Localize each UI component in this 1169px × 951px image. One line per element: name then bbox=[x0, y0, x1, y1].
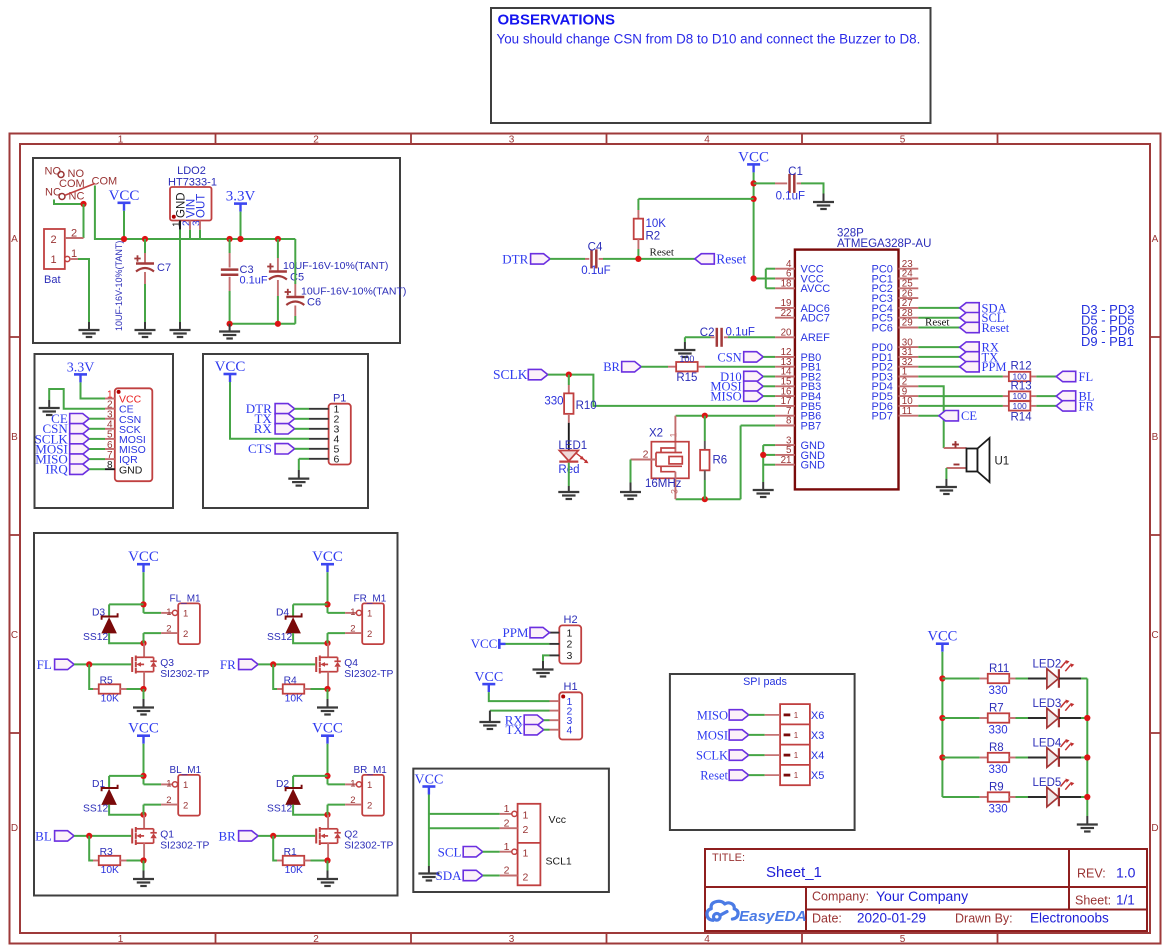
svg-text:1: 1 bbox=[350, 607, 355, 618]
svg-text:1: 1 bbox=[523, 847, 529, 859]
svg-text:R2: R2 bbox=[646, 231, 661, 243]
svg-text:H1: H1 bbox=[564, 681, 578, 693]
svg-text:0.1uF: 0.1uF bbox=[240, 275, 268, 287]
svg-text:1: 1 bbox=[183, 609, 188, 620]
svg-text:10K: 10K bbox=[101, 694, 119, 705]
svg-text:Q1: Q1 bbox=[160, 830, 174, 841]
svg-text:330: 330 bbox=[989, 724, 1008, 736]
svg-text:SCLK: SCLK bbox=[696, 749, 728, 763]
svg-text:1: 1 bbox=[118, 135, 124, 146]
svg-text:FL_M1: FL_M1 bbox=[170, 594, 202, 605]
svg-text:R15: R15 bbox=[676, 372, 697, 384]
svg-text:BR: BR bbox=[218, 828, 236, 843]
svg-text:330: 330 bbox=[989, 803, 1008, 815]
svg-text:D2: D2 bbox=[276, 779, 289, 790]
svg-text:2: 2 bbox=[367, 629, 372, 640]
svg-text:SS12: SS12 bbox=[83, 632, 108, 643]
svg-text:29: 29 bbox=[902, 318, 913, 329]
svg-text:330: 330 bbox=[544, 396, 563, 408]
svg-text:MOSI: MOSI bbox=[697, 728, 728, 742]
svg-text:C: C bbox=[1151, 630, 1158, 641]
svg-text:SCL: SCL bbox=[438, 844, 462, 859]
svg-text:10K: 10K bbox=[285, 694, 303, 705]
svg-text:VCC: VCC bbox=[128, 549, 159, 565]
svg-text:8: 8 bbox=[107, 460, 113, 471]
svg-text:1.0: 1.0 bbox=[1116, 865, 1136, 881]
svg-text:ADC7: ADC7 bbox=[801, 313, 830, 325]
svg-text:X6: X6 bbox=[811, 710, 824, 722]
svg-text:Vcc: Vcc bbox=[549, 814, 567, 826]
svg-text:D3: D3 bbox=[92, 608, 105, 619]
svg-text:D: D bbox=[11, 823, 18, 834]
svg-text:B: B bbox=[1152, 432, 1159, 443]
svg-text:100: 100 bbox=[679, 354, 694, 364]
svg-text:2: 2 bbox=[71, 228, 77, 240]
svg-text:R13: R13 bbox=[1011, 380, 1032, 392]
svg-text:SI2302-TP: SI2302-TP bbox=[344, 669, 393, 680]
svg-text:C7: C7 bbox=[157, 262, 171, 274]
svg-text:D4: D4 bbox=[276, 608, 289, 619]
svg-text:3: 3 bbox=[509, 135, 515, 146]
svg-text:0.1uF: 0.1uF bbox=[776, 191, 805, 203]
svg-text:X5: X5 bbox=[811, 770, 824, 782]
svg-text:EasyEDA: EasyEDA bbox=[739, 908, 807, 925]
svg-text:R8: R8 bbox=[989, 742, 1004, 754]
svg-text:LED1: LED1 bbox=[558, 440, 587, 452]
svg-text:1: 1 bbox=[504, 803, 510, 815]
svg-text:2: 2 bbox=[350, 795, 355, 806]
svg-text:1: 1 bbox=[794, 771, 799, 780]
svg-text:CE: CE bbox=[961, 409, 977, 423]
svg-text:2: 2 bbox=[183, 629, 188, 640]
svg-text:100: 100 bbox=[1013, 401, 1027, 411]
svg-text:TX: TX bbox=[505, 722, 523, 737]
svg-text:PPM: PPM bbox=[502, 625, 528, 640]
svg-text:D1: D1 bbox=[92, 779, 105, 790]
svg-text:2: 2 bbox=[313, 934, 319, 945]
svg-text:SS12: SS12 bbox=[267, 804, 292, 815]
svg-text:C2: C2 bbox=[700, 327, 715, 339]
svg-text:R14: R14 bbox=[1011, 411, 1033, 423]
svg-text:Drawn By:: Drawn By: bbox=[955, 912, 1013, 926]
svg-text:C5: C5 bbox=[290, 272, 304, 284]
svg-text:1: 1 bbox=[794, 711, 799, 720]
svg-text:VCC: VCC bbox=[312, 721, 343, 737]
svg-text:OBSERVATIONS: OBSERVATIONS bbox=[498, 12, 616, 29]
svg-text:1: 1 bbox=[567, 627, 573, 639]
svg-text:VCC: VCC bbox=[471, 636, 498, 651]
svg-text:X2: X2 bbox=[649, 428, 663, 440]
svg-text:R7: R7 bbox=[989, 702, 1004, 714]
svg-text:10K: 10K bbox=[285, 865, 303, 876]
svg-text:FR: FR bbox=[1079, 399, 1095, 413]
svg-text:1: 1 bbox=[669, 432, 679, 437]
svg-text:U1: U1 bbox=[995, 456, 1010, 468]
svg-text:1: 1 bbox=[118, 934, 124, 945]
svg-text:1: 1 bbox=[794, 731, 799, 740]
svg-text:RX: RX bbox=[254, 421, 273, 436]
svg-text:VCC: VCC bbox=[109, 188, 140, 204]
svg-text:Sheet_1: Sheet_1 bbox=[766, 864, 822, 881]
svg-text:11: 11 bbox=[902, 406, 912, 417]
svg-text:1: 1 bbox=[71, 248, 77, 260]
svg-text:SCLK: SCLK bbox=[493, 367, 528, 382]
svg-text:4: 4 bbox=[704, 135, 710, 146]
svg-text:2: 2 bbox=[567, 639, 573, 651]
svg-text:1: 1 bbox=[166, 607, 171, 618]
svg-text:1: 1 bbox=[350, 779, 355, 790]
svg-text:Reset: Reset bbox=[925, 316, 949, 328]
svg-text:PB7: PB7 bbox=[801, 420, 822, 432]
svg-text:FL: FL bbox=[1079, 370, 1094, 384]
svg-text:D: D bbox=[1151, 823, 1158, 834]
svg-text:0.1uF: 0.1uF bbox=[726, 327, 755, 339]
svg-text:TITLE:: TITLE: bbox=[712, 852, 745, 864]
svg-text:VCC: VCC bbox=[474, 670, 503, 685]
svg-text:2: 2 bbox=[523, 824, 529, 836]
svg-text:C: C bbox=[11, 630, 18, 641]
svg-text:C6: C6 bbox=[307, 297, 321, 309]
svg-text:Company:: Company: bbox=[812, 890, 869, 904]
svg-text:VCC: VCC bbox=[415, 773, 444, 788]
svg-text:2: 2 bbox=[166, 795, 171, 806]
svg-text:IRQ: IRQ bbox=[45, 462, 68, 477]
svg-text:MISO: MISO bbox=[697, 708, 728, 722]
svg-text:2: 2 bbox=[367, 801, 372, 812]
svg-text:SS12: SS12 bbox=[83, 804, 108, 815]
svg-text:1: 1 bbox=[367, 609, 372, 620]
svg-text:BR: BR bbox=[603, 360, 620, 374]
svg-text:B: B bbox=[11, 432, 18, 443]
svg-text:3: 3 bbox=[509, 934, 515, 945]
svg-text:R4: R4 bbox=[284, 676, 297, 687]
svg-text:1: 1 bbox=[794, 751, 799, 760]
svg-text:10K: 10K bbox=[101, 865, 119, 876]
svg-text:A: A bbox=[11, 234, 18, 245]
svg-text:10K: 10K bbox=[646, 218, 667, 230]
svg-text:Reset: Reset bbox=[700, 769, 728, 783]
svg-text:D9 - PB1: D9 - PB1 bbox=[1081, 334, 1134, 349]
svg-text:100: 100 bbox=[1013, 391, 1027, 401]
svg-text:2: 2 bbox=[643, 448, 649, 460]
svg-text:Electronoobs: Electronoobs bbox=[1030, 911, 1109, 926]
svg-text:2: 2 bbox=[166, 624, 171, 635]
svg-text:X4: X4 bbox=[811, 750, 824, 762]
svg-text:AREF: AREF bbox=[801, 332, 831, 344]
svg-text:R3: R3 bbox=[100, 847, 113, 858]
svg-text:2: 2 bbox=[523, 871, 529, 883]
svg-text:16MHz: 16MHz bbox=[645, 478, 682, 490]
svg-text:2: 2 bbox=[50, 234, 56, 246]
svg-text:R6: R6 bbox=[713, 455, 728, 467]
svg-text:3.3V: 3.3V bbox=[226, 189, 256, 205]
svg-text:CSN: CSN bbox=[717, 350, 741, 364]
svg-text:6: 6 bbox=[334, 454, 340, 466]
svg-text:8: 8 bbox=[786, 416, 792, 427]
svg-text:1: 1 bbox=[50, 254, 56, 266]
svg-text:PD7: PD7 bbox=[871, 411, 892, 423]
svg-text:BL_M1: BL_M1 bbox=[170, 765, 202, 776]
svg-text:R12: R12 bbox=[1011, 361, 1032, 373]
svg-text:VCC: VCC bbox=[927, 629, 957, 645]
svg-text:H2: H2 bbox=[564, 614, 578, 626]
svg-text:VCC: VCC bbox=[312, 549, 343, 565]
svg-text:1: 1 bbox=[504, 841, 510, 853]
svg-text:SI2302-TP: SI2302-TP bbox=[160, 669, 209, 680]
svg-text:PPM: PPM bbox=[982, 360, 1007, 374]
svg-text:1/1: 1/1 bbox=[1116, 893, 1135, 908]
svg-text:22: 22 bbox=[781, 308, 792, 319]
svg-text:1: 1 bbox=[166, 779, 171, 790]
svg-text:BR_M1: BR_M1 bbox=[354, 765, 388, 776]
svg-text:1: 1 bbox=[523, 810, 529, 822]
svg-text:18: 18 bbox=[781, 279, 792, 290]
svg-text:ATMEGA328P-AU: ATMEGA328P-AU bbox=[837, 238, 931, 250]
svg-text:5: 5 bbox=[900, 934, 906, 945]
svg-text:0.1uF: 0.1uF bbox=[581, 265, 610, 277]
svg-text:AVCC: AVCC bbox=[801, 283, 831, 295]
svg-text:GND: GND bbox=[119, 464, 143, 476]
svg-text:2: 2 bbox=[350, 624, 355, 635]
svg-text:Sheet:: Sheet: bbox=[1075, 894, 1111, 908]
svg-text:SDA: SDA bbox=[435, 868, 462, 883]
svg-text:Reset: Reset bbox=[982, 321, 1010, 335]
svg-text:3.3V: 3.3V bbox=[67, 360, 95, 375]
svg-text:1: 1 bbox=[367, 780, 372, 791]
svg-text:2: 2 bbox=[313, 135, 319, 146]
svg-text:CTS: CTS bbox=[248, 441, 272, 456]
svg-text:Q2: Q2 bbox=[344, 830, 358, 841]
svg-text:SI2302-TP: SI2302-TP bbox=[344, 840, 393, 851]
svg-text:You should change CSN from D8: You should change CSN from D8 to D10 and… bbox=[497, 32, 921, 47]
svg-text:SCL1: SCL1 bbox=[546, 856, 572, 868]
svg-text:2: 2 bbox=[504, 865, 510, 877]
svg-text:10UF-16V-10%(TANT): 10UF-16V-10%(TANT) bbox=[114, 241, 124, 331]
svg-text:Your Company: Your Company bbox=[876, 888, 968, 904]
svg-text:FL: FL bbox=[37, 657, 52, 672]
svg-text:OUT: OUT bbox=[196, 194, 208, 218]
svg-text:1: 1 bbox=[183, 780, 188, 791]
svg-text:VCC: VCC bbox=[738, 149, 769, 165]
svg-text:10UF-16V-10%(TANT): 10UF-16V-10%(TANT) bbox=[283, 260, 388, 272]
svg-text:Q4: Q4 bbox=[344, 658, 358, 669]
svg-text:PC6: PC6 bbox=[871, 322, 892, 334]
svg-text:Q3: Q3 bbox=[160, 658, 174, 669]
svg-text:4: 4 bbox=[567, 725, 573, 737]
svg-text:R9: R9 bbox=[989, 781, 1004, 793]
svg-text:Reset: Reset bbox=[650, 247, 674, 259]
svg-text:FR_M1: FR_M1 bbox=[354, 594, 387, 605]
svg-text:DTR: DTR bbox=[502, 251, 528, 266]
svg-text:2: 2 bbox=[504, 817, 510, 829]
svg-text:21: 21 bbox=[781, 455, 792, 466]
svg-text:3: 3 bbox=[567, 650, 573, 662]
svg-text:Reset: Reset bbox=[716, 252, 746, 267]
svg-text:LED2: LED2 bbox=[1033, 658, 1062, 670]
svg-text:SI2302-TP: SI2302-TP bbox=[160, 840, 209, 851]
svg-text:SS12: SS12 bbox=[267, 632, 292, 643]
svg-text:R1: R1 bbox=[284, 847, 297, 858]
svg-text:5: 5 bbox=[900, 135, 906, 146]
svg-text:REV:: REV: bbox=[1077, 867, 1106, 881]
svg-text:20: 20 bbox=[781, 328, 792, 339]
svg-text:330: 330 bbox=[989, 685, 1008, 697]
svg-text:SPI pads: SPI pads bbox=[743, 676, 787, 688]
svg-text:Date:: Date: bbox=[812, 912, 842, 926]
svg-text:BL: BL bbox=[35, 828, 52, 843]
svg-text:Bat: Bat bbox=[44, 274, 61, 286]
svg-text:MISO: MISO bbox=[710, 390, 741, 404]
svg-text:A: A bbox=[1152, 234, 1159, 245]
svg-text:VCC: VCC bbox=[128, 721, 159, 737]
svg-text:C1: C1 bbox=[788, 166, 803, 178]
svg-text:C4: C4 bbox=[588, 242, 603, 254]
svg-text:X3: X3 bbox=[811, 730, 824, 742]
svg-text:LDO2: LDO2 bbox=[177, 165, 206, 177]
svg-text:2: 2 bbox=[183, 801, 188, 812]
svg-text:VCC: VCC bbox=[215, 359, 246, 375]
svg-text:LED3: LED3 bbox=[1033, 698, 1062, 710]
svg-text:R5: R5 bbox=[100, 676, 113, 687]
svg-text:R11: R11 bbox=[989, 663, 1009, 675]
svg-text:GND: GND bbox=[801, 460, 826, 472]
svg-text:R10: R10 bbox=[576, 400, 597, 412]
svg-text:330: 330 bbox=[989, 764, 1008, 776]
svg-text:LED5: LED5 bbox=[1033, 777, 1062, 789]
svg-text:FR: FR bbox=[220, 657, 236, 672]
svg-text:LED4: LED4 bbox=[1033, 737, 1062, 749]
svg-text:4: 4 bbox=[704, 934, 710, 945]
svg-text:2020-01-29: 2020-01-29 bbox=[857, 911, 926, 926]
